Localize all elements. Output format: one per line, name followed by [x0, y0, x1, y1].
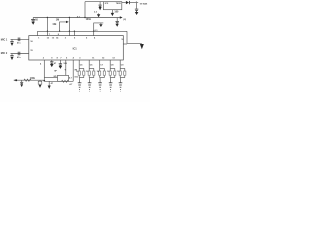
supply arrow on bus1	[97, 14, 100, 17]
text labels	[1, 1, 148, 86]
capacitor C11 to ground near bus1 end	[116, 18, 118, 22]
series capacitor on input 1	[17, 38, 19, 42]
wire V1 bus1 to bus2	[46, 18, 48, 36]
capacitor under IC pin x60.4	[59, 60, 61, 64]
cell 4	[109, 60, 116, 91]
cell 2	[88, 60, 95, 91]
elbow arrow pin7	[60, 22, 67, 31]
svg-text:8Ω: 8Ω	[54, 76, 57, 78]
wire regulator output	[122, 2, 126, 4]
svg-text:100k: 100k	[30, 78, 36, 80]
regulator U2 box	[103, 2, 121, 10]
riser output left	[43, 60, 45, 81]
svg-text:+: +	[64, 67, 66, 71]
speaker SP box	[58, 75, 69, 81]
capacitor to gnd x21.7	[21, 80, 23, 82]
wire pin10 to ground line	[123, 43, 127, 45]
ground input 1	[11, 39, 13, 41]
capacitor C12 to ground at input	[136, 3, 138, 9]
bus2 right end down and to gnd	[127, 31, 142, 43]
bus1 Vcc rail	[33, 17, 121, 19]
input line 2	[11, 53, 29, 55]
svg-text:MIC 2: MIC 2	[1, 52, 8, 55]
resistor R1 zigzag	[24, 79, 31, 81]
series capacitor on input 2	[17, 52, 19, 56]
cell 1	[78, 60, 85, 91]
svg-text:MIC 1: MIC 1	[1, 39, 8, 42]
input line 1	[11, 38, 29, 40]
svg-text:9V MAX: 9V MAX	[140, 2, 148, 5]
cell 3	[98, 60, 105, 91]
junction dots	[47, 17, 95, 32]
wire bus1 to bus2 x69.4	[68, 18, 70, 36]
bottom line middle	[44, 80, 73, 82]
ground under bottom line x49	[48, 81, 50, 85]
wire regulator input top	[85, 1, 103, 3]
svg-text:7805: 7805	[116, 3, 122, 5]
bus1 end arrow	[120, 16, 123, 18]
capacitor C1 to ground	[32, 18, 34, 20]
wire diode to battery	[130, 2, 138, 4]
svg-text:10k: 10k	[52, 23, 57, 26]
IC U1 box	[29, 36, 124, 60]
ground arrow right side	[140, 44, 144, 49]
svg-text:IC1: IC1	[73, 47, 78, 51]
ground under regulator	[111, 10, 113, 13]
bus2 rail above IC	[38, 30, 128, 32]
capacitor C4 from top line to ground	[99, 2, 101, 5]
wire to speaker	[44, 76, 57, 78]
diode D1	[126, 1, 130, 4]
ground input 2	[11, 54, 13, 56]
speaker feed wire	[65, 60, 67, 75]
zigzag under speaker	[62, 80, 69, 82]
wire vertical x85 to bus1	[84, 2, 86, 18]
capacitor to gnd x40	[39, 79, 41, 82]
output line bottom left	[17, 79, 45, 81]
svg-text:(2): (2)	[123, 19, 126, 21]
svg-text:100n: 100n	[86, 18, 92, 21]
terminal dot	[14, 79, 45, 81]
svg-text:100: 100	[114, 10, 119, 13]
elbow pin6 with ground	[94, 23, 104, 36]
capacitor under IC pin x51.8	[51, 60, 53, 62]
stub bus2 to IC pin	[73, 31, 75, 35]
cell 5	[119, 60, 126, 91]
bus2 left end down to IC	[37, 31, 39, 35]
svg-text:1M: 1M	[56, 18, 59, 21]
second output wire	[72, 60, 74, 81]
